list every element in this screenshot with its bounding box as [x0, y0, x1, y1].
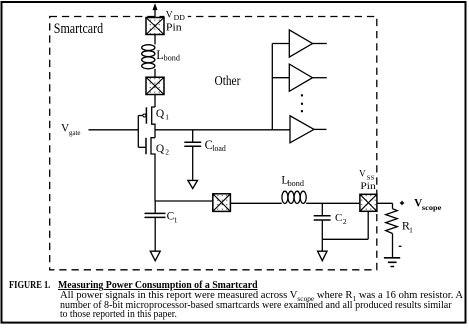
capacitor C2 plates [314, 216, 331, 220]
svg-text:L: L [156, 48, 164, 62]
svg-text:Other: Other [215, 73, 241, 88]
svg-text:Smartcard: Smartcard [54, 21, 104, 37]
svg-text:gate: gate [69, 129, 81, 137]
svg-text:bond: bond [164, 54, 180, 63]
wire R1 to earth ground [392, 234, 394, 258]
svg-text:DD: DD [174, 14, 185, 22]
wire Lbond to VSS pin [306, 202, 360, 204]
Q1 gate lead [138, 115, 143, 117]
wire C2 bottom rail to VSS pin bottom [322, 211, 368, 239]
wire chip pad to Q1 drain [154, 95, 156, 108]
svg-text:load: load [212, 144, 226, 153]
Q1 gate bar [145, 107, 147, 123]
capacitor C1 plates [145, 213, 166, 217]
VSS pin (crossed pad) [360, 194, 377, 211]
wire VSS pin to R1 [377, 203, 393, 208]
wire Lbond coil to chip pad [154, 69, 156, 77]
wire inverter output node [155, 129, 290, 131]
capacitor Cload plates [184, 142, 201, 146]
buffer U1 input wire [272, 43, 289, 45]
svg-text:Pin: Pin [166, 22, 183, 33]
smartcard boundary (dashed box) [50, 17, 377, 270]
svg-text:V: V [359, 168, 366, 178]
earth ground symbol [384, 258, 400, 267]
svg-text:1: 1 [165, 112, 169, 121]
power arrow above VDD pin [154, 9, 156, 18]
capacitor Cload bottom lead [192, 147, 194, 180]
buffer U1 output wire [313, 43, 327, 45]
svg-text:Q: Q [156, 143, 165, 155]
svg-text:2: 2 [343, 217, 347, 226]
ground arrow below Cload [188, 180, 198, 188]
transistor Q1 (PMOS) drain-channel-source [152, 107, 155, 138]
svg-text:2: 2 [165, 148, 169, 157]
svg-text:bond: bond [288, 179, 304, 188]
wire Q2 source to ground rail [155, 200, 213, 202]
gate bus wire (Q1 gate to Q2 gate) [137, 116, 139, 148]
wire Vgate input [89, 129, 139, 131]
capacitor C2 top lead [321, 203, 323, 215]
svg-text:scope: scope [422, 203, 442, 212]
svg-text:V: V [166, 10, 173, 20]
buffer U1 (top triangle) [289, 30, 312, 57]
svg-text:Pin: Pin [360, 181, 376, 192]
chip bond pad (crossed pad on ground rail) [213, 194, 231, 212]
VDD pin (crossed pad) [146, 18, 164, 35]
inductor Lbond (vertical bond wire coil) [142, 45, 155, 69]
resistor R1 (zigzag) [386, 209, 398, 234]
Q2 gate bar [145, 138, 147, 154]
chip bond pad (crossed pad below Lbond) [146, 77, 164, 94]
polarity plus [400, 201, 404, 205]
wire VDD pin to Lbond coil [154, 35, 156, 45]
capacitor C2 bottom lead [321, 221, 323, 240]
capacitor C1 bottom lead [154, 218, 156, 251]
buffer bus wire (to other gates) [271, 44, 273, 130]
inductor Lbond (horizontal bond wire coil) [282, 191, 306, 203]
transistor Q2 (NMOS) drain-channel-source [151, 138, 155, 201]
svg-text:1: 1 [174, 215, 178, 224]
ellipsis dots (more gates) [301, 94, 303, 112]
buffer U2 input wire [272, 77, 289, 79]
wire pad to Lbond (ground rail) [230, 202, 281, 204]
wire C2 rail to ground [321, 239, 323, 251]
caption text [9, 279, 50, 291]
capacitor Cload top lead [192, 130, 194, 142]
buffer U2 output wire [313, 77, 327, 79]
white gap for VDD label over dashed line [164, 12, 187, 20]
Q1 gate bubble [143, 114, 146, 117]
buffer U3 output wire [314, 128, 327, 130]
ground arrow below C2 rail [318, 251, 327, 261]
svg-text:Q: Q [156, 108, 165, 120]
ground arrow below C1 [150, 251, 160, 261]
svg-text:C: C [335, 212, 342, 224]
buffer U3 (bottom triangle) [290, 116, 314, 143]
Q2 gate lead [138, 146, 146, 148]
capacitor C1 top lead [154, 201, 156, 213]
polarity minus [399, 245, 402, 247]
svg-text:1: 1 [409, 226, 413, 235]
buffer U2 (middle triangle) [289, 64, 312, 91]
